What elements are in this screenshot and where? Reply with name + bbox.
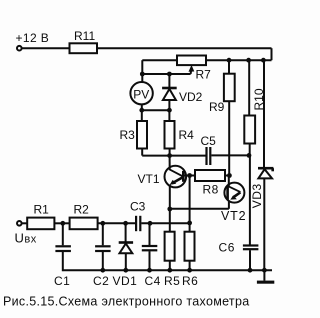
junction dot C4 top [148, 221, 153, 226]
resistor R8 [195, 170, 229, 197]
resistor R9 [209, 60, 235, 175]
diode VD2 [162, 74, 203, 110]
transistor VT2 [221, 176, 246, 224]
junction dot C6 / ground rail [248, 268, 253, 273]
capacitor C3 [130, 200, 146, 232]
svg-text:+12 В: +12 В [16, 31, 50, 45]
terminal +12V [17, 46, 22, 51]
svg-text:C4: C4 [145, 274, 161, 288]
svg-text:Uвх: Uвх [15, 231, 37, 246]
resistor R2 [70, 203, 98, 230]
junction dot VD1 top [123, 221, 128, 226]
resistor R4 [165, 110, 195, 155]
wire right jog rail1 to rail2 [271, 48, 273, 60]
junction dot VD1 / ground rail [123, 268, 128, 273]
svg-text:R3: R3 [120, 128, 136, 142]
junction dot PV bottom [139, 108, 144, 113]
capacitor C5 [201, 134, 217, 165]
node collector line VT1 (R3/R4 bottom to C5) [142, 155, 205, 157]
svg-text:C5: C5 [201, 134, 217, 148]
junction dot C5/R10 column [247, 153, 252, 158]
wire upper bus rail2 [142, 59, 271, 61]
svg-text:R9: R9 [209, 100, 225, 114]
svg-text:Рис.5.15.Схема электронного та: Рис.5.15.Схема электронного тахометра [3, 295, 249, 309]
potentiometer R7 [177, 56, 206, 66]
junction dot PV column / wiper [140, 72, 145, 77]
junction dot C4 / ground rail [147, 268, 152, 273]
svg-text:R8: R8 [203, 183, 219, 197]
svg-text:R4: R4 [179, 128, 195, 142]
junction dot rail2 / VD3 [261, 58, 266, 63]
wire C3 to VT1 base column [141, 222, 189, 224]
svg-text:C2: C2 [93, 274, 109, 288]
wire R6 column (VT1 base to R6) [189, 176, 191, 232]
diode VD1 [113, 223, 138, 288]
wire VT2 emitter line to VT1 emitter [170, 208, 229, 210]
capacitor C1 [54, 223, 71, 288]
resistor R11 [70, 43, 98, 53]
resistor R5 [164, 232, 180, 288]
wire PV bottom stub [141, 104, 143, 110]
capacitor C6 [219, 241, 259, 271]
junction dot VD2 top [167, 72, 172, 77]
junction dot rail2 / R10 [246, 58, 251, 63]
node wiper line [142, 73, 190, 75]
svg-text:R1: R1 [34, 203, 50, 217]
node PV/VD2 bottom line [142, 109, 170, 111]
junction dot VD2 bottom [167, 108, 172, 113]
junction dot C2 / ground rail [100, 268, 105, 273]
junction dot VT1 base / R6 column [187, 173, 192, 178]
resistor R1 [22, 203, 55, 230]
svg-text:R5: R5 [164, 274, 180, 288]
junction dot R5 / ground rail [167, 268, 172, 273]
wire +12V rail (top) [22, 47, 272, 49]
svg-text:C3: C3 [130, 200, 146, 214]
terminal Uвх [17, 221, 22, 226]
wire R1 to R2 [54, 222, 69, 224]
svg-text:PV: PV [133, 87, 149, 101]
resistor R3 [120, 110, 148, 155]
svg-text:R6: R6 [182, 274, 198, 288]
junction dot R6 / ground rail [187, 268, 192, 273]
capacitor C2 [93, 223, 111, 288]
wire C5 right to R10 column [211, 154, 249, 156]
transistor VT1 [138, 156, 196, 232]
svg-text:R7: R7 [196, 68, 212, 82]
junction dot C2 top [100, 221, 105, 226]
wire R10 column down to C6 [249, 155, 251, 244]
wire R2 to C3 [98, 222, 136, 224]
junction dot C1 top [60, 221, 65, 226]
svg-text:VT2: VT2 [221, 209, 246, 223]
svg-text:VD2: VD2 [179, 90, 203, 104]
svg-text:VD1: VD1 [113, 274, 138, 288]
junction dot VT1 emitter / VT2 emitter line [167, 207, 172, 212]
svg-text:VT1: VT1 [138, 172, 160, 186]
wire ground rail [63, 269, 272, 271]
junction dot R4 bottom / VT1 collector [167, 153, 172, 158]
capacitor C4 [142, 223, 161, 288]
junction dot rail2 / R9 [227, 58, 232, 63]
zener diode VD3 [250, 60, 274, 270]
wiper arrow of R7 [190, 70, 193, 75]
ground symbol [257, 270, 274, 284]
svg-text:R2: R2 [74, 203, 90, 217]
resistor R10 [244, 60, 266, 155]
svg-text:C1: C1 [54, 274, 70, 288]
junction dot VD3 / ground rail [262, 268, 267, 273]
resistor R6 [182, 232, 198, 288]
svg-text:VD3: VD3 [250, 183, 264, 208]
svg-text:C6: C6 [219, 241, 236, 255]
junction dot R8 right / R9 column / VT2 base [227, 173, 232, 178]
wire PV column from rail2 [141, 60, 143, 82]
svg-text:R11: R11 [74, 29, 95, 43]
junction dot R6 column / C3 line [187, 221, 192, 226]
meter PV [130, 82, 152, 104]
